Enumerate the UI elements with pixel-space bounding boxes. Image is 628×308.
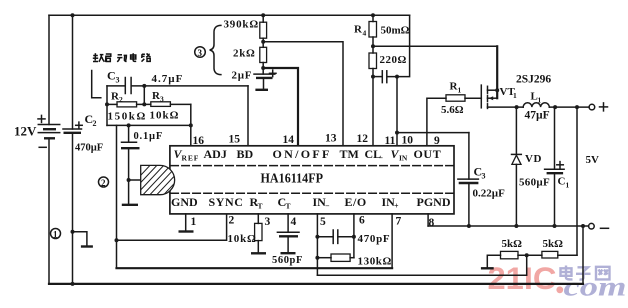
svg-text:470pF: 470pF (358, 233, 391, 245)
svg-text:10: 10 (402, 135, 414, 147)
svg-text:9: 9 (434, 135, 440, 147)
svg-text:REF: REF (182, 154, 200, 163)
svg-text:220Ω: 220Ω (380, 54, 407, 66)
hatched shield shape (124, 159, 191, 207)
node R2-R3 junction (142, 102, 146, 106)
svg-text:ON/OFF: ON/OFF (273, 147, 332, 161)
wm char wang (596, 267, 610, 280)
wire SYNC branch (117, 214, 227, 240)
svg-text:2µF: 2µF (232, 70, 253, 82)
node pin6 470p tap (352, 235, 356, 239)
watermark 21IC (488, 260, 564, 296)
svg-text:PGND: PGND (417, 195, 451, 209)
svg-text:C: C (558, 176, 566, 188)
svg-text:SYNC: SYNC (209, 195, 244, 209)
svg-text:3: 3 (198, 48, 203, 58)
svg-text:GND: GND (171, 195, 198, 209)
label soft-start circuit (CJK) (93, 53, 151, 62)
brace for group 3 (210, 25, 221, 74)
node minus rail C3b (467, 224, 471, 228)
svg-text:5: 5 (320, 216, 326, 228)
svg-text:5V: 5V (586, 154, 600, 166)
node 2k bottom junction (261, 66, 265, 70)
node 0.1uF tap (127, 123, 131, 127)
wire minus rail (428, 225, 589, 227)
wire to pin13 (263, 42, 343, 146)
wire bottom rail (49, 283, 583, 285)
wire drain rail (488, 106, 524, 108)
wire node A column (106, 86, 108, 126)
svg-text:11: 11 (385, 135, 396, 147)
svg-text:2SJ296: 2SJ296 (516, 74, 551, 86)
IC U1 HA16114FP body (170, 146, 454, 214)
char lu (142, 54, 151, 62)
char dong (117, 55, 126, 62)
capacitor C3b 0.22uF (458, 133, 505, 226)
node minus rail VD (514, 224, 518, 228)
svg-text:7: 7 (396, 216, 402, 228)
svg-text:10kΩ: 10kΩ (150, 110, 180, 122)
svg-text:47µF: 47µF (525, 110, 550, 122)
node VD top (515, 105, 519, 109)
terminal plus output (589, 103, 607, 111)
svg-text:+: + (394, 202, 399, 211)
node R4 bottom junction (371, 44, 375, 48)
node bottom rail C2 (71, 282, 75, 286)
resistor 2k (233, 47, 267, 74)
leader line for soft-start label (92, 71, 101, 98)
resistor divider 5k right (542, 238, 577, 258)
wire top rail (49, 14, 410, 16)
svg-text:OUT: OUT (414, 147, 442, 161)
node pin16/bus junction (189, 123, 193, 127)
svg-text:T: T (286, 202, 291, 211)
svg-text:4: 4 (363, 29, 367, 38)
node top-rail C2 junction (71, 13, 75, 17)
svg-text:T: T (258, 202, 263, 211)
wm char zi (576, 267, 591, 279)
capacitor 0.1uF (121, 125, 163, 204)
svg-text:1: 1 (566, 181, 570, 190)
capacitor 470pF (317, 230, 390, 245)
svg-text:8: 8 (429, 217, 435, 229)
box around R4 network (387, 15, 409, 76)
resistor 220 (369, 53, 407, 146)
wire shield net bottom run (117, 267, 393, 269)
svg-text:50mΩ: 50mΩ (381, 25, 410, 37)
pin numbers bottom (191, 215, 435, 230)
svg-text:1: 1 (458, 86, 462, 95)
svg-text:12V: 12V (14, 124, 37, 139)
svg-text:6: 6 (359, 215, 365, 227)
svg-text:0.1µF: 0.1µF (134, 131, 164, 142)
wire pin8 to minus rail (427, 214, 429, 226)
svg-text:ADJ: ADJ (204, 147, 227, 161)
char ruan (93, 53, 105, 62)
node top-rail R4 junction (371, 13, 375, 17)
svg-text:E/O: E/O (345, 195, 367, 209)
svg-text:1: 1 (538, 96, 542, 105)
IC top row labels (174, 147, 442, 163)
char qi (106, 54, 111, 62)
svg-text:390kΩ: 390kΩ (224, 19, 259, 31)
node pin5 130k tap (315, 256, 319, 260)
wire pin11 riser (396, 77, 398, 146)
capacitor in R4 box (381, 71, 383, 83)
node divider riser top (575, 105, 579, 109)
node pin5 470p tap (315, 235, 319, 239)
label node 1 (51, 229, 61, 240)
wire pin11 to C3b (397, 132, 469, 134)
node C3 right junction (142, 84, 146, 88)
wire feedback from divider (317, 255, 526, 275)
wm char dian (561, 266, 573, 280)
wire shield net column (116, 125, 118, 268)
IC bottom row labels (171, 195, 451, 211)
wire pin1 GND ground (179, 214, 194, 232)
svg-text:0.22µF: 0.22µF (473, 188, 506, 200)
svg-text:2: 2 (93, 119, 97, 128)
wire pin7 column (391, 214, 393, 268)
svg-text:C: C (107, 69, 116, 83)
char dian1 (131, 53, 137, 61)
svg-text:2: 2 (119, 95, 123, 104)
transistor VT1 2SJ296 MOSFET (481, 46, 551, 108)
pin numbers top (193, 133, 441, 148)
svg-text:16: 16 (193, 135, 205, 147)
node SYNC tee (115, 238, 119, 242)
node 390k-2k junction (261, 40, 265, 44)
svg-text:−: − (325, 202, 330, 211)
watermark cjk (561, 266, 610, 280)
svg-text:com: com (564, 272, 627, 302)
wire C3 to R2R3 junction (143, 86, 145, 105)
diode VD (512, 107, 542, 226)
node top-rail 390k junction (261, 13, 265, 17)
wire pin16 riser (190, 104, 192, 145)
svg-text:470µF: 470µF (75, 143, 103, 154)
node 220 bottom (371, 75, 375, 79)
svg-text:560pF: 560pF (272, 255, 303, 266)
wire right-bottom corner riser (582, 226, 584, 284)
node pin11 tap (395, 131, 399, 135)
node R2 left (105, 102, 109, 106)
svg-text:IN: IN (399, 154, 408, 163)
svg-text:TM: TM (340, 147, 359, 161)
node divider mid (525, 253, 529, 257)
inductor L1 47uF (523, 91, 589, 122)
svg-text:5kΩ: 5kΩ (543, 238, 564, 250)
svg-text:3: 3 (482, 172, 486, 181)
svg-text:BD: BD (237, 147, 254, 161)
resistor R3 10k (137, 90, 191, 122)
wire sense line to MOSFET source (373, 45, 497, 47)
wire pin6 column (353, 214, 355, 258)
wire to pin14 (263, 68, 298, 146)
svg-text:VD: VD (525, 153, 542, 165)
label group 3 (195, 47, 206, 58)
capacitor 560pF on pin4 (272, 214, 303, 266)
svg-text:560µF: 560µF (519, 177, 550, 189)
ground near battery (71, 230, 93, 247)
resistor 10k on pin3 (228, 214, 267, 253)
wire lower bus of soft-start (107, 124, 191, 126)
resistor 390k (224, 15, 267, 47)
svg-text:5kΩ: 5kΩ (502, 238, 523, 250)
capacitor 2uF (232, 70, 277, 90)
resistor R1 5.6 (427, 81, 481, 146)
svg-text:3: 3 (116, 76, 120, 85)
terminal minus output (589, 223, 609, 229)
node cap right junction (395, 75, 399, 79)
wire divider riser (576, 107, 578, 255)
capacitor C1 560uF (519, 107, 570, 226)
svg-text:15: 15 (229, 134, 241, 146)
svg-text:1: 1 (191, 216, 197, 228)
svg-text:2kΩ: 2kΩ (233, 48, 256, 60)
svg-text:3: 3 (265, 216, 271, 228)
svg-text:2: 2 (101, 178, 106, 188)
wire pin5 column (316, 214, 318, 275)
svg-text:10kΩ: 10kΩ (228, 233, 257, 245)
svg-text:4: 4 (291, 216, 297, 228)
svg-text:130kΩ: 130kΩ (358, 256, 392, 268)
label node 2 (99, 177, 109, 188)
resistor R2 150k (107, 91, 147, 123)
node minus rail C1 (553, 224, 557, 228)
svg-text:2: 2 (229, 215, 235, 227)
svg-text:−: − (379, 154, 384, 163)
resistor 130k (317, 254, 392, 268)
wire pin15 riser (247, 86, 249, 146)
svg-text:3: 3 (160, 95, 164, 104)
capacitor C2 470uF (63, 15, 103, 284)
node C1 top (553, 105, 557, 109)
svg-text:12: 12 (357, 133, 369, 145)
capacitor C3 4.7uF (soft start) (107, 69, 248, 94)
node 0.1uF column to shield (127, 178, 131, 182)
svg-text:1: 1 (513, 91, 517, 100)
resistor divider 5k left (481, 238, 542, 268)
wire to hatched shield (129, 179, 141, 181)
resistor R4 50mohm (354, 15, 410, 53)
svg-text:1: 1 (53, 230, 58, 240)
svg-text:14: 14 (283, 134, 295, 146)
svg-text:HA16114FP: HA16114FP (261, 171, 324, 186)
svg-text:5.6Ω: 5.6Ω (441, 104, 464, 116)
svg-text:150kΩ: 150kΩ (108, 111, 147, 123)
node minus rail corner (581, 224, 585, 228)
svg-text:21IC: 21IC (488, 260, 557, 296)
battery BT 12V (14, 15, 60, 284)
svg-text:4.7µF: 4.7µF (152, 73, 184, 85)
svg-text:13: 13 (325, 133, 337, 145)
